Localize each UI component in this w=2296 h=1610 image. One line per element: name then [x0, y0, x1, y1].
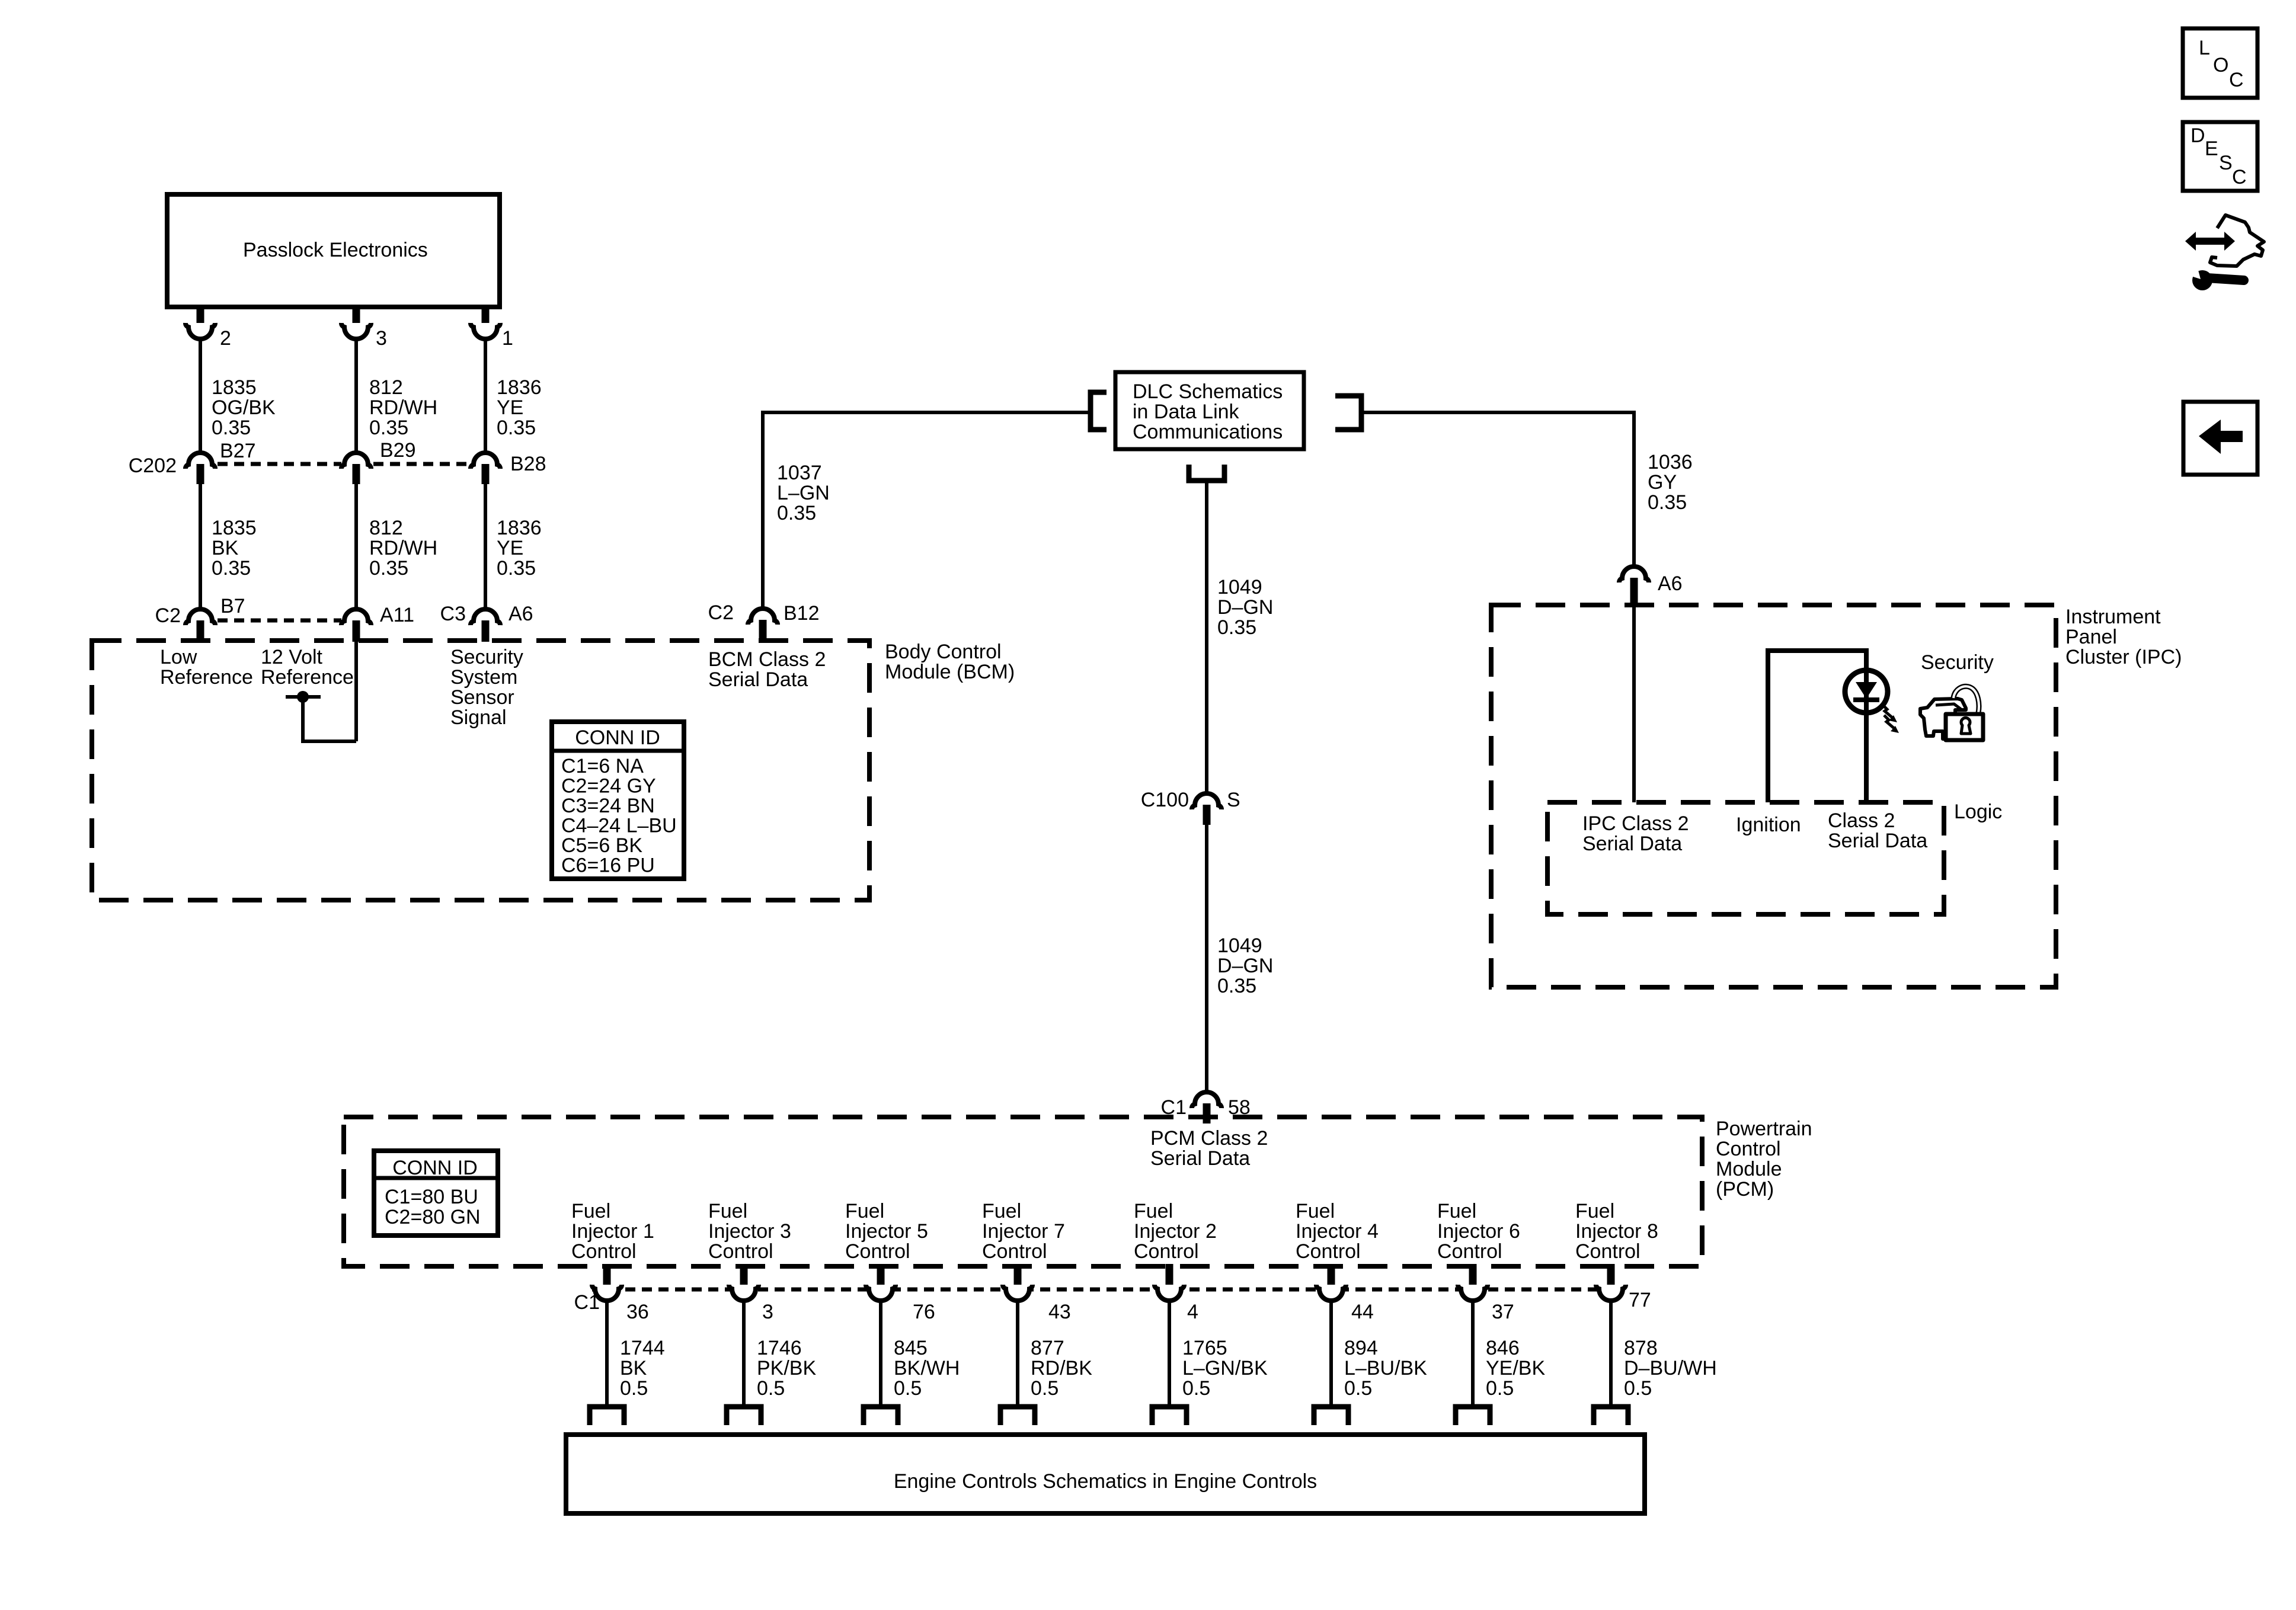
svg-text:YE: YE: [497, 396, 523, 419]
wire 1765 L–GN/BK injector 2: [1168, 1302, 1171, 1406]
svg-text:Reference: Reference: [160, 666, 253, 689]
connector C1 pin 37 fuel injector 6 control: [1469, 1264, 1477, 1289]
svg-text:Powertrain: Powertrain: [1716, 1118, 1812, 1140]
svg-text:0.5: 0.5: [757, 1377, 785, 1400]
LOC letters: [2199, 37, 2244, 91]
svg-text:C202: C202: [129, 454, 177, 477]
svg-text:PCM Class 2: PCM Class 2: [1150, 1127, 1268, 1150]
svg-text:1746: 1746: [757, 1337, 802, 1359]
off-page bracket injector 3 wire: [727, 1407, 761, 1425]
svg-text:1835: 1835: [212, 376, 257, 399]
svg-text:0.35: 0.35: [369, 417, 408, 439]
svg-text:Serial Data: Serial Data: [1582, 833, 1682, 855]
wire 1049 D-GN from C100 to PCM C1: [1205, 825, 1208, 1090]
svg-text:BK: BK: [620, 1357, 647, 1379]
svg-text:O: O: [2213, 54, 2228, 76]
svg-text:0.5: 0.5: [894, 1377, 922, 1400]
off-page bracket right of DLC box: [1335, 396, 1361, 430]
svg-text:S: S: [1227, 789, 1240, 811]
svg-text:Body Control: Body Control: [885, 641, 1002, 663]
wire 846 YE/BK injector 6: [1471, 1302, 1475, 1406]
svg-text:S: S: [2219, 152, 2233, 174]
svg-text:A6: A6: [509, 603, 533, 625]
DLC Schematics box: [1115, 372, 1304, 449]
CONN ID header divider: [552, 749, 684, 753]
connector C202 terminal B28: [471, 453, 500, 469]
svg-text:B27: B27: [220, 440, 256, 462]
svg-text:Serial Data: Serial Data: [1828, 830, 1927, 852]
svg-text:0.5: 0.5: [1031, 1377, 1059, 1400]
svg-text:Injector 5: Injector 5: [845, 1220, 928, 1243]
svg-text:Sensor: Sensor: [450, 686, 514, 709]
svg-text:0.5: 0.5: [620, 1377, 648, 1400]
svg-text:1049: 1049: [1217, 934, 1262, 957]
tool icon wrench: [2192, 270, 2212, 290]
svg-text:Injector 8: Injector 8: [1575, 1220, 1658, 1243]
svg-text:2: 2: [220, 327, 231, 350]
PCM CONN ID table box: [374, 1151, 498, 1235]
connector terminal A6 at IPC: [1619, 566, 1649, 582]
svg-text:Fuel: Fuel: [1296, 1200, 1335, 1222]
svg-text:B29: B29: [380, 439, 416, 462]
connector pin 3 of Passlock Electronics: [353, 305, 360, 328]
Passlock Electronics module box: [167, 194, 500, 307]
svg-text:0.35: 0.35: [369, 557, 408, 580]
svg-text:76: 76: [913, 1301, 935, 1323]
svg-text:3: 3: [376, 327, 387, 350]
Powertrain Control Module PCM dashed box: [344, 1117, 1702, 1266]
wire IPC class 2 serial data inside IPC: [1632, 605, 1636, 802]
svg-text:Fuel: Fuel: [708, 1200, 747, 1222]
svg-text:PK/BK: PK/BK: [757, 1357, 816, 1379]
svg-text:RD/BK: RD/BK: [1031, 1357, 1092, 1379]
svg-text:A11: A11: [380, 604, 414, 626]
svg-text:3: 3: [762, 1301, 773, 1323]
connector C1 pin 3 fuel injector 3 control: [740, 1264, 748, 1289]
off-page bracket injector 7 wire: [1000, 1407, 1035, 1425]
svg-text:B12: B12: [784, 602, 820, 625]
svg-text:0.35: 0.35: [1217, 975, 1256, 997]
wire 1744 BK injector 1: [605, 1302, 609, 1406]
svg-text:L–GN/BK: L–GN/BK: [1182, 1357, 1268, 1379]
connector pin 2 of Passlock Electronics: [197, 305, 204, 328]
svg-text:Ignition: Ignition: [1736, 814, 1801, 836]
svg-text:0.35: 0.35: [1648, 491, 1687, 514]
svg-text:Control: Control: [1716, 1138, 1781, 1160]
off-page bracket injector 5 wire: [864, 1407, 898, 1425]
svg-text:C3: C3: [440, 603, 466, 625]
svg-text:B28: B28: [510, 453, 546, 475]
svg-text:Control: Control: [1296, 1240, 1361, 1263]
svg-text:845: 845: [894, 1337, 928, 1359]
svg-text:RD/WH: RD/WH: [369, 396, 437, 419]
svg-text:0.35: 0.35: [212, 417, 251, 439]
connector terminal A11 at BCM: [341, 609, 371, 625]
svg-text:BCM Class 2: BCM Class 2: [708, 648, 826, 671]
security icon car with padlock: [1920, 686, 1983, 740]
svg-text:1744: 1744: [620, 1337, 665, 1359]
svg-text:Instrument: Instrument: [2065, 606, 2161, 628]
svg-text:Passlock Electronics: Passlock Electronics: [243, 239, 428, 261]
svg-text:Injector 1: Injector 1: [571, 1220, 654, 1243]
svg-text:GY: GY: [1648, 471, 1677, 494]
svg-text:Injector 4: Injector 4: [1296, 1220, 1379, 1243]
tool icon double arrow: [2185, 232, 2235, 251]
svg-text:C: C: [2232, 166, 2247, 188]
svg-text:C1=80 BU: C1=80 BU: [385, 1186, 478, 1208]
svg-text:0.5: 0.5: [1344, 1377, 1372, 1400]
junction dot 12 volt reference: [297, 691, 309, 703]
svg-text:Module: Module: [1716, 1158, 1782, 1180]
off-page bracket injector 2 wire: [1152, 1407, 1187, 1425]
svg-text:IPC Class 2: IPC Class 2: [1582, 812, 1689, 835]
off-page bracket injector 8 wire: [1594, 1407, 1628, 1425]
svg-text:BK/WH: BK/WH: [894, 1357, 960, 1379]
svg-text:E: E: [2205, 137, 2218, 160]
back arrow icon box: [2183, 402, 2257, 475]
svg-text:Serial Data: Serial Data: [708, 668, 808, 691]
wire A11 into BCM interior: [354, 642, 358, 741]
svg-text:BK: BK: [212, 537, 239, 559]
connector C202 terminal B27: [186, 453, 215, 469]
svg-text:Injector 7: Injector 7: [982, 1220, 1065, 1243]
svg-text:C4–24 L–BU: C4–24 L–BU: [561, 815, 677, 837]
svg-text:C2: C2: [708, 601, 734, 624]
svg-text:Reference: Reference: [261, 666, 354, 689]
wire 845 BK/WH injector 5: [879, 1302, 882, 1406]
C202 connector dashed link B29-B28: [373, 462, 471, 466]
BCM CONN ID table box: [552, 722, 684, 879]
svg-text:Serial Data: Serial Data: [1150, 1147, 1250, 1170]
svg-text:812: 812: [369, 376, 403, 399]
connector pin 1 of Passlock Electronics: [482, 305, 490, 328]
svg-text:CONN ID: CONN ID: [392, 1157, 478, 1179]
svg-text:C2=80 GN: C2=80 GN: [385, 1206, 481, 1228]
12 volt reference bar: [286, 695, 321, 699]
wire 1835 OG/BK segment pin2 to C202-B27: [199, 341, 202, 452]
svg-text:Security: Security: [1921, 651, 1994, 674]
svg-text:77: 77: [1629, 1289, 1651, 1311]
svg-text:D–GN: D–GN: [1217, 596, 1273, 619]
wire 877 RD/BK injector 7: [1016, 1302, 1019, 1406]
svg-text:Injector 2: Injector 2: [1134, 1220, 1217, 1243]
svg-text:L–BU/BK: L–BU/BK: [1344, 1357, 1427, 1379]
wire 1037 L-GN horizontal to DLC: [761, 411, 1088, 414]
svg-text:1835: 1835: [212, 517, 257, 539]
svg-text:36: 36: [626, 1301, 649, 1323]
connector C1 pin 77 fuel injector 8 control: [1607, 1264, 1615, 1289]
off-page bracket left of DLC box: [1091, 392, 1107, 430]
svg-text:C1=6 NA: C1=6 NA: [561, 755, 644, 777]
svg-text:1037: 1037: [777, 462, 822, 484]
PCM CONN ID divider: [374, 1176, 498, 1180]
svg-text:Communications: Communications: [1133, 421, 1283, 443]
svg-text:System: System: [450, 666, 517, 689]
Instrument Panel Cluster IPC dashed box: [1491, 605, 2056, 987]
connector C1 terminal 58 at PCM: [1192, 1092, 1221, 1108]
wire 1836 YE segment pin1 to C202-B28: [484, 341, 487, 452]
svg-text:0.35: 0.35: [1217, 616, 1256, 639]
svg-text:OG/BK: OG/BK: [212, 396, 276, 419]
wire 878 D–BU/WH injector 8: [1609, 1302, 1613, 1406]
svg-text:Signal: Signal: [450, 706, 507, 729]
svg-text:L–GN: L–GN: [777, 482, 830, 504]
svg-text:44: 44: [1351, 1301, 1374, 1323]
svg-text:Logic: Logic: [1954, 801, 2002, 823]
wire jog to 12 volt reference node: [301, 740, 356, 743]
svg-text:Control: Control: [982, 1240, 1047, 1263]
svg-text:C2=24 GY: C2=24 GY: [561, 775, 656, 798]
wire 1036 GY vertical down to IPC A6: [1632, 411, 1636, 565]
svg-text:in Data Link: in Data Link: [1133, 401, 1240, 423]
wire 812 RD/WH segment pin3 to C202-B29: [354, 341, 358, 452]
back arrow: [2199, 420, 2243, 454]
svg-text:Control: Control: [571, 1240, 637, 1263]
svg-text:C3=24 BN: C3=24 BN: [561, 795, 655, 817]
svg-text:12 Volt: 12 Volt: [261, 646, 323, 668]
wire 1036 GY horizontal from DLC to right: [1363, 411, 1634, 414]
connector C1 pin 76 fuel injector 5 control: [877, 1264, 885, 1289]
connector C1 pin 43 fuel injector 7 control: [1014, 1264, 1022, 1289]
svg-text:Control: Control: [1437, 1240, 1502, 1263]
svg-text:Control: Control: [1575, 1240, 1641, 1263]
off-page bracket injector 6 wire: [1456, 1407, 1490, 1425]
svg-text:43: 43: [1048, 1301, 1071, 1323]
wire 1037 L-GN vertical from B12: [761, 412, 765, 607]
off-page bracket injector 4 wire: [1314, 1407, 1348, 1425]
svg-text:C5=6 BK: C5=6 BK: [561, 834, 642, 857]
wire 1835 BK segment C202 to BCM C2-B7: [199, 484, 202, 607]
svg-text:Fuel: Fuel: [1134, 1200, 1173, 1222]
svg-text:Injector 6: Injector 6: [1437, 1220, 1520, 1243]
svg-text:Cluster (IPC): Cluster (IPC): [2065, 646, 2182, 668]
svg-text:4: 4: [1187, 1301, 1198, 1323]
svg-text:0.35: 0.35: [212, 557, 251, 580]
svg-text:0.5: 0.5: [1624, 1377, 1652, 1400]
Engine Controls Schematics box: [566, 1435, 1645, 1513]
svg-text:D–GN: D–GN: [1217, 955, 1273, 977]
svg-text:Low: Low: [160, 646, 197, 668]
svg-text:Module (BCM): Module (BCM): [885, 661, 1015, 683]
svg-text:0.5: 0.5: [1182, 1377, 1210, 1400]
off-page bracket below DLC box: [1189, 465, 1224, 481]
svg-text:Fuel: Fuel: [982, 1200, 1021, 1222]
svg-text:1: 1: [502, 327, 513, 350]
svg-text:D: D: [2191, 124, 2205, 147]
connector C100 terminal S: [1192, 793, 1221, 809]
connector C1 pin 44 fuel injector 4 control: [1328, 1264, 1335, 1289]
svg-text:0.35: 0.35: [777, 502, 816, 524]
svg-text:Fuel: Fuel: [1575, 1200, 1614, 1222]
wire 1746 PK/BK injector 3: [742, 1302, 746, 1406]
svg-text:0.5: 0.5: [1486, 1377, 1514, 1400]
wire 1049 D-GN from DLC down to C100: [1205, 481, 1208, 792]
svg-text:B7: B7: [220, 595, 245, 617]
connector C1 pin 4 fuel injector 2 control: [1166, 1264, 1173, 1289]
tool icon harness outline: [2210, 215, 2264, 266]
wire ignition and security lamp loop: [1768, 651, 1866, 802]
svg-text:846: 846: [1486, 1337, 1520, 1359]
svg-text:CONN ID: CONN ID: [575, 726, 660, 749]
svg-text:1049: 1049: [1217, 576, 1262, 598]
Body Control Module BCM dashed box: [92, 641, 869, 900]
svg-text:(PCM): (PCM): [1716, 1178, 1774, 1201]
svg-text:0.35: 0.35: [497, 417, 536, 439]
connector C1 pin 36 fuel injector 1 control: [603, 1264, 611, 1289]
svg-text:Engine Controls Schematics in: Engine Controls Schematics in Engine Con…: [894, 1470, 1317, 1493]
svg-text:A6: A6: [1658, 572, 1683, 595]
svg-text:878: 878: [1624, 1337, 1658, 1359]
svg-text:L: L: [2199, 37, 2210, 59]
connector dashed link B7-A11: [218, 619, 341, 623]
svg-text:Fuel: Fuel: [571, 1200, 610, 1222]
svg-text:Security: Security: [450, 646, 523, 668]
connector C2 terminal B12 at BCM: [748, 609, 778, 625]
svg-text:Injector 3: Injector 3: [708, 1220, 791, 1243]
svg-text:Fuel: Fuel: [845, 1200, 884, 1222]
connector C2 terminal B7 at BCM: [186, 609, 215, 625]
svg-text:C2: C2: [155, 604, 181, 627]
LED security indicator: [1845, 670, 1888, 713]
svg-text:C: C: [2229, 69, 2244, 91]
svg-text:Control: Control: [708, 1240, 773, 1263]
svg-text:YE: YE: [497, 537, 523, 559]
LOC icon box: [2183, 28, 2257, 98]
svg-text:37: 37: [1492, 1301, 1514, 1323]
svg-text:894: 894: [1344, 1337, 1378, 1359]
LED light emission arrows: [1882, 705, 1893, 718]
svg-text:C6=16 PU: C6=16 PU: [561, 854, 655, 877]
svg-text:Control: Control: [845, 1240, 910, 1263]
svg-text:1036: 1036: [1648, 451, 1693, 473]
svg-text:1765: 1765: [1182, 1337, 1227, 1359]
svg-text:Class 2: Class 2: [1828, 809, 1895, 832]
svg-text:877: 877: [1031, 1337, 1064, 1359]
svg-text:YE/BK: YE/BK: [1486, 1357, 1545, 1379]
wire up to 12 volt reference junction: [301, 695, 305, 741]
DESC letters: [2191, 124, 2247, 188]
svg-text:Control: Control: [1134, 1240, 1199, 1263]
svg-text:D–BU/WH: D–BU/WH: [1624, 1357, 1717, 1379]
svg-text:0.35: 0.35: [497, 557, 536, 580]
svg-text:1836: 1836: [497, 376, 542, 399]
connector C202 terminal B29: [341, 453, 371, 469]
off-page bracket injector 1 wire: [590, 1407, 624, 1425]
svg-text:Panel: Panel: [2065, 626, 2117, 648]
DESC icon box: [2183, 122, 2257, 191]
C202 connector dashed link B27-B29: [218, 462, 341, 466]
svg-text:812: 812: [369, 517, 403, 539]
svg-text:RD/WH: RD/WH: [369, 537, 437, 559]
wire 812 RD/WH segment C202 to BCM A11: [354, 484, 358, 607]
wire 894 L–BU/BK injector 4: [1329, 1302, 1333, 1406]
svg-text:C100: C100: [1141, 789, 1189, 811]
IPC logic dashed box: [1547, 802, 1944, 914]
connector C3 terminal A6 at BCM: [471, 609, 500, 625]
svg-text:Fuel: Fuel: [1437, 1200, 1476, 1222]
wire 1836 YE segment C202 to BCM C3-A6: [484, 484, 487, 607]
connector C1 dashed line across injector pins: [592, 1288, 1597, 1292]
svg-text:1836: 1836: [497, 517, 542, 539]
svg-text:DLC Schematics: DLC Schematics: [1133, 380, 1283, 403]
